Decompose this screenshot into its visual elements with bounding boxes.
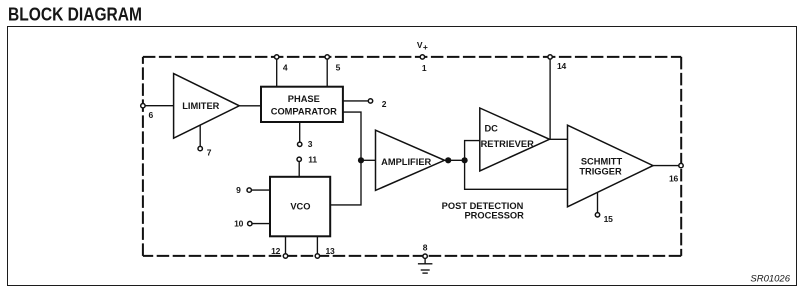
ground <box>418 258 433 273</box>
svg-text:11: 11 <box>308 154 317 164</box>
schmitt trigger block <box>568 125 654 207</box>
node amplifier input junction <box>358 157 364 163</box>
wire pin 14 to dc retriever output <box>549 59 551 139</box>
wire phase comparator to pin 2 <box>343 100 369 102</box>
svg-text:7: 7 <box>207 147 212 157</box>
limiter A1 <box>174 74 240 139</box>
wire schmitt trigger output to pin 16 <box>653 165 679 167</box>
svg-text:16: 16 <box>669 173 679 183</box>
IC boundary dashed box <box>143 57 681 256</box>
wire vco output to junction <box>330 161 361 205</box>
wire pin 5 to phase comparator <box>326 59 328 87</box>
svg-text:6: 6 <box>149 110 154 120</box>
wire schmitt trigger to pin 15 <box>597 193 599 213</box>
wire phase comparator to pin 3 <box>299 122 301 142</box>
pin 13 <box>315 246 335 258</box>
wire branch to dc retriever <box>465 141 480 161</box>
wire vco to pin 13 <box>316 236 318 254</box>
pin 10 <box>234 219 252 229</box>
node amplifier output <box>445 157 451 163</box>
label post detection processor <box>442 201 524 221</box>
wire branch to schmitt trigger lower input <box>465 160 568 189</box>
pin 11 <box>297 154 317 164</box>
svg-text:TRIGGER: TRIGGER <box>579 166 622 176</box>
svg-text:AMPLIFIER: AMPLIFIER <box>381 157 431 167</box>
svg-text:10: 10 <box>234 219 244 229</box>
svg-text:4: 4 <box>283 63 288 73</box>
amplifier A2 <box>376 130 445 190</box>
svg-text:LIMITER: LIMITER <box>182 101 219 111</box>
phase comparator block <box>261 87 343 122</box>
wire pin 11 to vco <box>298 162 300 177</box>
svg-text:14: 14 <box>557 61 567 71</box>
svg-text:DC: DC <box>484 124 498 134</box>
svg-text:9: 9 <box>236 185 241 195</box>
pin 8 <box>423 242 428 258</box>
svg-text:PHASE: PHASE <box>288 94 320 104</box>
wire pin 10 to vco <box>252 223 270 225</box>
pin 1 V+ <box>417 40 428 73</box>
wire pin 9 to vco <box>251 189 270 191</box>
pin 4 <box>275 55 288 73</box>
wire limiter to pin 7 <box>199 125 201 146</box>
node post detection branch <box>462 157 468 163</box>
svg-text:8: 8 <box>423 242 428 252</box>
wire pin 4 to phase comparator <box>276 59 278 87</box>
svg-text:15: 15 <box>604 214 614 224</box>
pin 16 <box>669 163 683 183</box>
vco block <box>270 177 330 237</box>
svg-text:5: 5 <box>336 63 341 73</box>
svg-text:13: 13 <box>325 246 335 256</box>
svg-text:SR01026: SR01026 <box>750 274 790 285</box>
svg-text:12: 12 <box>271 246 281 256</box>
pin 7 <box>198 146 212 157</box>
svg-text:3: 3 <box>308 139 313 149</box>
svg-text:BLOCK DIAGRAM: BLOCK DIAGRAM <box>8 5 142 25</box>
pin 9 <box>236 185 251 195</box>
pin 12 <box>271 246 288 258</box>
wire pin6 to limiter input <box>144 105 174 107</box>
wire vco to pin 12 <box>285 236 287 254</box>
wire junction to amplifier <box>361 159 376 161</box>
svg-text:RETRIEVER: RETRIEVER <box>481 139 534 149</box>
pin 15 <box>595 213 613 224</box>
pin 3 <box>298 139 313 149</box>
svg-text:+: + <box>423 42 428 52</box>
pin 2 <box>368 99 386 109</box>
pin 14 <box>548 55 567 71</box>
dc retriever block <box>480 108 550 171</box>
svg-text:1: 1 <box>422 63 427 73</box>
svg-text:SCHMITT: SCHMITT <box>581 157 623 167</box>
svg-text:2: 2 <box>382 99 387 109</box>
svg-text:VCO: VCO <box>290 202 310 212</box>
wire phase comparator feedback to junction <box>343 112 361 160</box>
wire dc retriever to schmitt trigger upper input <box>550 138 568 140</box>
pin 6 <box>141 104 154 120</box>
wire amplifier output <box>445 159 465 161</box>
pin 5 <box>325 55 341 73</box>
svg-text:POST DETECTION: POST DETECTION <box>442 201 524 211</box>
wire limiter output to phase comparator <box>239 105 261 107</box>
svg-text:PROCESSOR: PROCESSOR <box>464 211 524 221</box>
svg-text:COMPARATOR: COMPARATOR <box>271 106 337 116</box>
